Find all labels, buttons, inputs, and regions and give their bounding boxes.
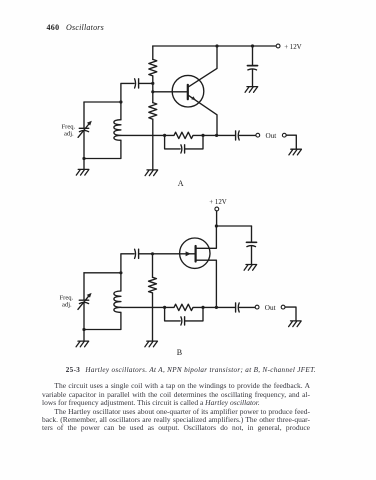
svg-text:A: A xyxy=(178,179,184,188)
tank B bottom rail xyxy=(84,312,121,329)
C8 arrow xyxy=(78,296,89,310)
C3 arrow xyxy=(78,124,89,138)
terminal +12V A xyxy=(276,44,280,48)
JFET drain lead xyxy=(197,226,217,248)
wire: R2 to ground xyxy=(152,119,154,170)
ground (bypass B) xyxy=(244,265,257,271)
resistor R4 (gate leak): top lead xyxy=(152,254,154,277)
wire: out B return to ground xyxy=(285,307,296,320)
capacitor C5 (output coupling) lead xyxy=(217,134,236,136)
C9 right lead xyxy=(185,307,203,321)
capacitor C10 (output coupling) lead xyxy=(216,306,235,308)
transistor Q1 base bar xyxy=(187,85,189,99)
C9 curved plate xyxy=(180,317,183,325)
terminal Out B right xyxy=(281,305,285,309)
wire: C5 to out terminal xyxy=(239,134,255,136)
body paragraph 1 line 3 xyxy=(42,399,310,407)
wire: +12V top rail xyxy=(153,45,276,47)
wire: coil tap to source network xyxy=(121,306,165,308)
transistor Q1 emitter with arrow xyxy=(189,95,218,135)
node: emitter RC left xyxy=(163,134,166,137)
body paragraph 2 line 1 xyxy=(42,408,310,416)
resistor R3 (emitter) xyxy=(165,132,203,138)
ground (output B) xyxy=(289,321,302,327)
ground (tank A) xyxy=(76,169,89,175)
wire: C10 to out terminal xyxy=(239,306,255,308)
svg-text:Freq.: Freq. xyxy=(60,294,74,301)
wire: network to source node xyxy=(203,306,216,308)
resistor R4 zigzag xyxy=(149,277,157,293)
terminal +12V B xyxy=(215,207,219,211)
node: coupling cap junction xyxy=(151,82,154,85)
ground (bias divider) xyxy=(145,170,158,176)
variable capacitor C8 top lead xyxy=(83,273,85,300)
node: emitter RC right xyxy=(201,134,204,137)
C8 plate bottom (curved) xyxy=(79,302,88,303)
transistor Q1 circle xyxy=(172,75,204,107)
tank B top rail xyxy=(84,272,121,274)
body paragraph 2 line 2 xyxy=(42,416,310,424)
svg-text:adj.: adj. xyxy=(62,301,72,308)
C4 straight plate xyxy=(184,145,186,153)
JFET source lead xyxy=(197,260,217,307)
transistor Q2 (JFET) circle xyxy=(180,238,210,268)
node: emitter/output junction xyxy=(215,134,218,137)
wire: R1 to base node xyxy=(152,76,154,103)
capacitor C4 (emitter bypass) left lead xyxy=(165,135,181,149)
resistor R5 (source) xyxy=(165,304,203,310)
ground (bypass A) xyxy=(245,87,258,93)
capacitor C7 (gate coupling): wire from tank xyxy=(121,254,134,273)
capacitor C1 curved plate xyxy=(134,79,137,88)
terminal Out A left xyxy=(256,133,260,137)
body paragraph 1 line 1 xyxy=(42,382,310,390)
body paragraph 1 line 2 xyxy=(42,391,310,399)
C7 curved plate xyxy=(134,249,137,258)
node: base junction xyxy=(151,90,154,93)
JFET channel bar xyxy=(195,246,197,262)
ground (tank B) xyxy=(76,341,89,347)
capacitor C2 (+12V bypass): wire xyxy=(252,46,254,65)
C7 straight plate xyxy=(138,249,140,258)
svg-text:B: B xyxy=(177,348,182,357)
wire: tank B bottom to ground xyxy=(83,330,85,342)
wire: tank B top to coil xyxy=(120,273,122,291)
capacitor C2 straight plate xyxy=(248,65,258,67)
emitter arrowhead xyxy=(191,96,196,100)
C4 right lead xyxy=(185,135,203,149)
node: collector junction on rail xyxy=(215,44,218,47)
C4 curved plate xyxy=(180,145,183,153)
gate arrowhead xyxy=(186,251,191,256)
C8 plate top xyxy=(79,299,88,301)
C10 curved plate xyxy=(237,303,240,312)
resistor R2 (base bias lower) xyxy=(149,103,157,120)
svg-text:Out: Out xyxy=(265,304,276,312)
resistor R1 (base bias upper) xyxy=(149,59,157,76)
C6 curved plate xyxy=(247,246,256,247)
svg-text:+ 12V: + 12V xyxy=(284,44,301,51)
node: gate resistor junction xyxy=(151,252,154,255)
capacitor C9 (source bypass) left lead xyxy=(165,307,181,321)
C10 straight plate xyxy=(235,303,237,312)
wire: gate xyxy=(139,253,195,255)
wire: base xyxy=(153,91,187,93)
wire: coil tap to emitter network xyxy=(121,134,165,136)
drain rail xyxy=(216,225,251,227)
wire: tank top to coil xyxy=(120,102,122,120)
node: source RC right xyxy=(201,306,204,309)
node: drain rail junction xyxy=(215,224,218,227)
tank A top rail xyxy=(84,101,121,103)
ground (output A) xyxy=(289,149,302,155)
C6 straight plate xyxy=(247,241,257,243)
node: tank B bottom xyxy=(82,328,85,331)
node: source/output junction xyxy=(215,306,218,309)
C5 curved plate xyxy=(237,131,240,140)
svg-text:Out: Out xyxy=(266,132,277,140)
inductor L2 (tapped coil) xyxy=(114,291,121,312)
C5 straight plate xyxy=(235,131,237,140)
body paragraph 2 line 3 xyxy=(42,424,310,432)
capacitor C1 straight plate xyxy=(138,79,140,88)
wire: rail to R1 xyxy=(152,46,154,59)
node: bypass cap junction on rail xyxy=(251,44,254,47)
inductor L1 (tapped coil) xyxy=(114,120,121,141)
wire: C2 to ground xyxy=(252,70,254,87)
C9 straight plate xyxy=(184,317,186,325)
node: tank top xyxy=(119,100,122,103)
terminal Out B left xyxy=(255,305,259,309)
capacitor C6 (bypass B) lead xyxy=(251,226,253,242)
tank A bottom rail xyxy=(84,140,121,158)
C3 plate bottom (curved) xyxy=(79,130,88,131)
running head xyxy=(47,24,60,32)
svg-text:adj.: adj. xyxy=(64,130,74,137)
node: source RC left xyxy=(163,306,166,309)
ground (gate leak) xyxy=(145,341,158,347)
svg-text:Freq.: Freq. xyxy=(62,123,76,130)
node: tank B top xyxy=(119,271,122,274)
capacitor C1 (base coupling): wire from tank xyxy=(121,83,134,102)
node: tank bottom xyxy=(82,157,85,160)
capacitor C2 curved plate xyxy=(248,69,257,70)
wire: terminal to drain rail xyxy=(216,211,218,226)
wire: out return to ground xyxy=(286,135,296,148)
svg-text:+ 12V: + 12V xyxy=(209,199,226,206)
C3 bottom lead xyxy=(83,132,85,159)
wire: tank bottom to ground xyxy=(83,159,85,170)
wire: R4 to ground xyxy=(152,293,154,341)
wire: C1 to base node xyxy=(139,82,153,84)
wire: network to emitter node xyxy=(203,134,217,136)
transistor Q1 collector xyxy=(189,46,218,87)
variable capacitor C3 top lead xyxy=(83,102,85,128)
wire: C6 to ground xyxy=(251,247,253,265)
C8 bottom lead xyxy=(83,304,85,330)
terminal Out A right xyxy=(282,133,286,137)
figure caption 25-3 xyxy=(66,366,316,374)
C3 plate top xyxy=(79,127,88,129)
